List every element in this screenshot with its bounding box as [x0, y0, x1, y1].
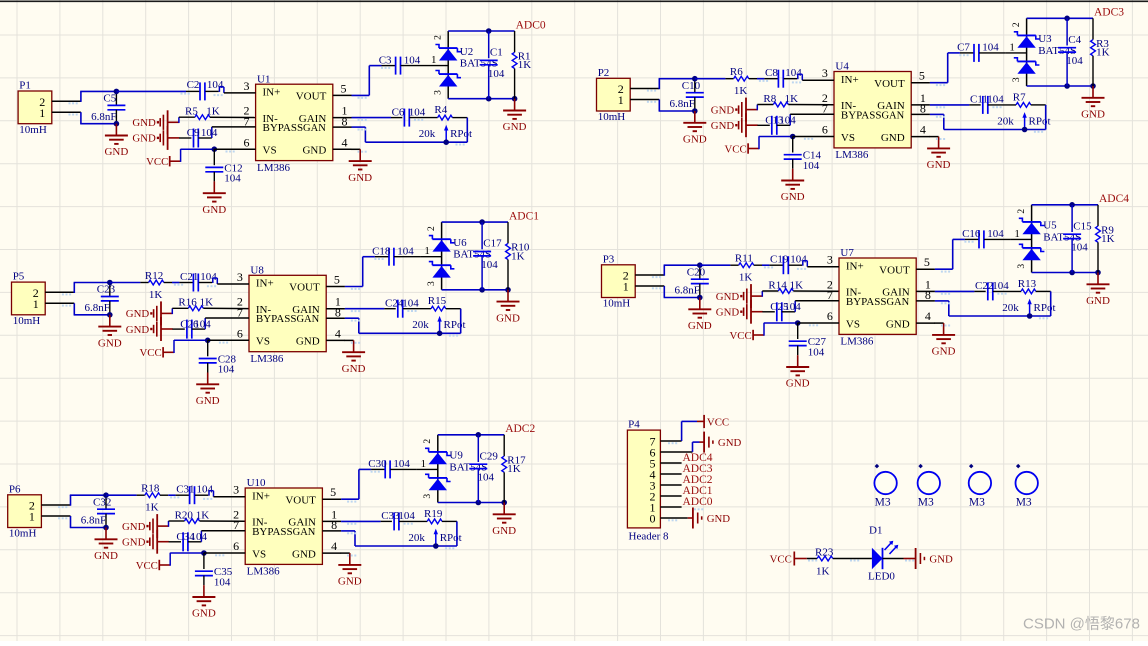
svg-text:GND: GND	[94, 550, 118, 562]
wire P5 pin 1 to ground node	[74, 303, 110, 315]
capacitor C17 104	[473, 222, 502, 290]
ground port at R14	[716, 284, 763, 308]
connector P5	[12, 271, 75, 327]
svg-text:5: 5	[334, 273, 340, 287]
svg-text:U4: U4	[835, 61, 849, 73]
svg-text:P1: P1	[19, 80, 31, 92]
diode U9 BAT54S	[423, 435, 487, 503]
svg-text:GAN: GAN	[293, 527, 316, 538]
svg-text:C17: C17	[483, 238, 502, 250]
svg-text:VS: VS	[263, 145, 277, 157]
connector P2	[597, 67, 660, 123]
svg-text:1: 1	[421, 458, 427, 470]
svg-text:4: 4	[335, 326, 341, 340]
svg-text:8: 8	[331, 518, 337, 532]
ground port at C13	[711, 113, 758, 137]
svg-text:10mH: 10mH	[603, 298, 631, 310]
svg-text:GND: GND	[1081, 109, 1105, 121]
capacitor C31 104	[176, 484, 214, 505]
svg-text:VCC: VCC	[707, 416, 729, 428]
svg-text:RPot: RPot	[450, 128, 472, 140]
capacitor C24 104	[384, 297, 431, 317]
svg-text:1K: 1K	[1101, 233, 1115, 245]
svg-text:GND: GND	[688, 320, 712, 332]
junction pot wiper	[1027, 313, 1033, 319]
resistor R14 1K	[762, 279, 839, 296]
svg-text:C24: C24	[385, 297, 404, 309]
svg-text:GND: GND	[126, 308, 150, 320]
ground port at R5	[132, 110, 179, 134]
ground at pin 4	[927, 137, 951, 172]
svg-text:GND: GND	[132, 117, 156, 129]
svg-text:R23: R23	[815, 546, 834, 558]
capacitor C32 6.8nF	[81, 495, 115, 527]
svg-text:104: 104	[779, 115, 796, 127]
svg-text:RPot: RPot	[1029, 115, 1051, 127]
svg-text:LM386: LM386	[257, 162, 291, 174]
svg-text:104: 104	[1066, 55, 1083, 67]
svg-text:1K: 1K	[145, 502, 159, 514]
wire to diode pin 1	[427, 54, 448, 66]
svg-text:7: 7	[827, 288, 833, 302]
svg-text:6: 6	[244, 135, 250, 149]
wire output bottom rail	[442, 289, 508, 291]
svg-text:1: 1	[39, 106, 45, 120]
power port VCC at P4	[697, 415, 729, 429]
power port VCC at LED	[770, 552, 807, 566]
svg-text:1K: 1K	[734, 85, 748, 97]
svg-text:IN+: IN+	[846, 260, 864, 272]
junction top rail	[1069, 202, 1075, 208]
capacitor C19 104	[769, 254, 807, 275]
svg-text:GND: GND	[932, 346, 956, 358]
wire pin 8 to pot	[935, 291, 1051, 316]
power port VCC	[724, 143, 759, 155]
wire jog to pin 3	[798, 74, 803, 80]
resistor R17 1K	[502, 435, 526, 503]
op-amp U7 LM386	[795, 247, 935, 348]
svg-text:1: 1	[424, 245, 430, 257]
junction bottom rail C	[1064, 83, 1070, 89]
capacitor C14 104	[784, 137, 822, 172]
svg-text:U5: U5	[1043, 220, 1057, 232]
svg-text:4: 4	[342, 135, 348, 149]
capacitor C18 104	[372, 245, 420, 265]
svg-text:104: 104	[393, 458, 410, 470]
svg-text:C16: C16	[962, 228, 981, 240]
svg-text:3: 3	[1017, 264, 1027, 269]
svg-text:104: 104	[397, 245, 414, 257]
capacitor C29 104	[469, 435, 498, 503]
svg-text:GND: GND	[929, 553, 953, 565]
ground at pin 4	[342, 340, 366, 375]
svg-text:C15: C15	[1073, 220, 1092, 232]
svg-text:VCC: VCC	[146, 156, 168, 168]
svg-text:4: 4	[331, 539, 337, 553]
junction VS node	[795, 320, 801, 326]
svg-text:VOUT: VOUT	[296, 91, 327, 103]
junction top rail	[486, 28, 492, 34]
svg-text:1: 1	[1014, 228, 1020, 240]
svg-text:C3: C3	[379, 54, 392, 66]
capacitor C21 104	[179, 271, 217, 292]
svg-text:BYPASS: BYPASS	[252, 526, 293, 538]
svg-text:C23: C23	[97, 284, 116, 296]
wire pin 8 to pot	[345, 309, 461, 334]
capacitor C23 6.8nF	[85, 283, 119, 315]
power port VCC	[139, 347, 174, 359]
svg-text:U6: U6	[453, 237, 467, 249]
svg-text:C6: C6	[392, 106, 405, 118]
svg-text:R8: R8	[763, 93, 776, 105]
ground below C28	[196, 373, 220, 408]
svg-text:P6: P6	[9, 483, 21, 495]
wire jog to pin 3	[803, 261, 808, 267]
svg-text:104: 104	[1071, 242, 1088, 254]
junction bottom rail C	[486, 96, 492, 102]
svg-text:LM386: LM386	[840, 336, 874, 348]
wire output top rail	[1032, 204, 1098, 206]
net label ADC4	[1099, 193, 1129, 205]
ground below output	[1081, 86, 1105, 121]
junction C20 bottom	[697, 295, 703, 301]
wire GAIN to cap	[345, 308, 385, 310]
svg-text:GND: GND	[716, 307, 740, 319]
mounting hole M3 #4	[1015, 464, 1037, 508]
capacitor C34 104	[169, 531, 208, 552]
ground below output	[1086, 273, 1110, 308]
ground at pin 4	[348, 149, 372, 184]
resistor R6 1K	[695, 66, 757, 97]
svg-text:3: 3	[433, 90, 443, 95]
svg-text:104: 104	[197, 484, 214, 496]
wire end markers	[652, 241, 1048, 327]
svg-text:CSDN @悟黎678: CSDN @悟黎678	[1023, 616, 1140, 633]
net label ADC2 at P4	[683, 474, 713, 486]
svg-text:GND: GND	[126, 324, 150, 336]
capacitor C10 6.8nF	[670, 79, 704, 111]
svg-text:GND: GND	[927, 159, 951, 171]
svg-text:R18: R18	[141, 483, 160, 495]
svg-text:GND: GND	[786, 378, 810, 390]
wire P4 pin 7 to VCC	[682, 421, 697, 441]
net label ADC0	[516, 19, 546, 31]
wire output bottom rail	[1032, 272, 1098, 274]
svg-text:6.8nF: 6.8nF	[81, 515, 106, 527]
svg-text:104: 104	[218, 364, 235, 376]
svg-text:U3: U3	[1038, 33, 1052, 45]
mounting hole M3 #1	[874, 464, 896, 508]
svg-text:1K: 1K	[507, 463, 521, 475]
junction bottom rail R	[1095, 270, 1101, 276]
net label ADC3 at P4	[683, 463, 713, 475]
wire P2 pin 2 to input node	[659, 79, 695, 90]
svg-text:104: 104	[478, 472, 495, 484]
wire jog to pin 3	[209, 491, 214, 497]
svg-text:1: 1	[618, 93, 624, 107]
wire P6 pin 1 to ground node	[70, 516, 106, 528]
wire VCC to VS	[181, 149, 215, 162]
junction pot wiper	[437, 331, 443, 337]
wire VCC to VS	[170, 553, 204, 566]
ground below C32	[94, 528, 118, 563]
resistor R12 1K	[110, 270, 172, 301]
svg-text:GND: GND	[781, 191, 805, 203]
ground below C5	[104, 124, 128, 159]
op-amp U4 LM386	[790, 61, 930, 162]
wire GAIN to cap	[341, 520, 381, 522]
svg-text:ADC1: ADC1	[509, 210, 539, 222]
wire input rail	[757, 78, 764, 80]
svg-text:C11: C11	[970, 94, 988, 106]
wire jog to pin 3	[213, 278, 218, 284]
svg-text:P2: P2	[598, 67, 610, 79]
svg-text:104: 104	[790, 254, 807, 266]
svg-text:GND: GND	[98, 337, 122, 349]
svg-text:VS: VS	[256, 336, 270, 348]
ground below C14	[781, 169, 805, 204]
wire end markers	[62, 258, 458, 344]
junction top rail	[1064, 15, 1070, 21]
svg-text:1K: 1K	[206, 106, 220, 118]
wire P2 pin 1 to ground node	[659, 100, 695, 112]
junction C23 bottom	[107, 312, 113, 318]
svg-text:GND: GND	[683, 134, 707, 146]
svg-text:VS: VS	[252, 548, 266, 560]
net label ADC4 at P4	[683, 452, 713, 464]
ground port at R20	[122, 514, 169, 538]
svg-text:C19: C19	[770, 254, 789, 266]
capacitor C12 104	[205, 149, 242, 184]
svg-text:IN+: IN+	[263, 87, 281, 99]
wire to diode pin 1	[1005, 41, 1026, 53]
svg-text:5: 5	[330, 485, 336, 499]
capacitor C35 104	[195, 553, 233, 588]
svg-text:6.8nF: 6.8nF	[91, 111, 116, 123]
svg-text:U2: U2	[460, 46, 473, 58]
capacitor C25 104	[762, 301, 801, 322]
svg-text:GND: GND	[202, 204, 226, 216]
net label ADC0 at P4	[683, 496, 713, 508]
junction VS node	[201, 550, 207, 556]
junction top rail	[479, 219, 485, 225]
svg-text:1: 1	[1009, 41, 1015, 53]
wire input rail	[762, 264, 769, 266]
svg-text:GND: GND	[711, 104, 735, 116]
svg-text:104: 104	[200, 271, 217, 283]
svg-text:3: 3	[237, 270, 243, 284]
svg-text:20k: 20k	[419, 128, 436, 140]
svg-text:VCC: VCC	[729, 330, 751, 342]
svg-text:M3: M3	[875, 496, 891, 508]
svg-text:BYPASS: BYPASS	[846, 296, 887, 308]
svg-text:LM386: LM386	[835, 149, 869, 161]
svg-text:GND: GND	[886, 318, 910, 330]
svg-text:R5: R5	[185, 106, 198, 118]
svg-text:7: 7	[244, 114, 250, 128]
capacitor C8 104	[764, 67, 802, 88]
svg-text:6.8nF: 6.8nF	[670, 98, 695, 110]
svg-text:1K: 1K	[790, 279, 804, 291]
svg-text:2: 2	[1012, 22, 1022, 27]
svg-text:GND: GND	[348, 172, 372, 184]
resistor R8 1K	[757, 93, 834, 110]
junction bottom rail R	[1090, 83, 1096, 89]
svg-text:104: 104	[409, 106, 426, 118]
potentiometer R19 20k	[408, 508, 461, 546]
potentiometer R15 20k	[412, 295, 465, 333]
svg-text:GND: GND	[132, 133, 156, 145]
wire GAIN to cap	[930, 104, 970, 106]
wire input rail	[168, 494, 175, 496]
ground port at R16	[126, 301, 173, 325]
svg-text:GND: GND	[881, 132, 905, 144]
svg-text:20k: 20k	[408, 532, 425, 544]
capacitor C15 104	[1063, 205, 1092, 273]
svg-text:GND: GND	[492, 525, 516, 537]
svg-text:8: 8	[335, 306, 341, 320]
junction VS node	[790, 134, 796, 140]
svg-text:R7: R7	[1013, 91, 1026, 103]
svg-text:2: 2	[1017, 209, 1027, 214]
svg-text:GND: GND	[718, 437, 742, 449]
ground below C12	[202, 181, 226, 216]
svg-text:LM386: LM386	[247, 566, 281, 578]
net label ADC1 at P4	[683, 485, 713, 497]
potentiometer R7 20k	[997, 91, 1050, 129]
svg-text:VS: VS	[846, 318, 860, 330]
ground port at C25	[716, 300, 763, 324]
svg-text:3: 3	[427, 281, 437, 286]
svg-text:7: 7	[233, 518, 239, 532]
markers at P4	[668, 442, 703, 521]
wire output top rail	[1027, 17, 1093, 19]
svg-text:4: 4	[920, 123, 926, 137]
capacitor C20 6.8nF	[675, 265, 709, 297]
op-amp U8 LM386	[205, 264, 345, 365]
svg-text:GAN: GAN	[881, 110, 904, 121]
svg-text:P3: P3	[603, 253, 615, 265]
svg-text:C22: C22	[975, 280, 993, 292]
wire output bottom rail	[448, 98, 514, 100]
svg-text:C33: C33	[381, 510, 400, 522]
svg-text:GND: GND	[711, 120, 735, 132]
svg-text:104: 104	[987, 94, 1004, 106]
svg-text:104: 104	[992, 280, 1009, 292]
svg-text:20k: 20k	[412, 319, 429, 331]
wire GAIN to cap	[352, 117, 392, 119]
svg-text:6: 6	[237, 326, 243, 340]
svg-text:2: 2	[427, 226, 437, 231]
svg-text:GAN: GAN	[296, 314, 319, 325]
svg-text:R13: R13	[1018, 278, 1037, 290]
ground port at P4 pin 6	[700, 432, 742, 453]
svg-text:GND: GND	[503, 121, 527, 133]
svg-text:P4: P4	[628, 419, 640, 431]
junction top rail	[476, 432, 482, 438]
junction C32 bottom	[103, 525, 109, 531]
svg-text:104: 104	[201, 127, 218, 139]
svg-text:10mH: 10mH	[9, 528, 37, 540]
wire pin 8 to pot	[352, 118, 468, 143]
svg-text:4: 4	[925, 309, 931, 323]
LED D1 LED0	[868, 525, 898, 583]
junction VS node	[212, 146, 218, 152]
junction C5 top	[114, 89, 120, 95]
ground port at P4 pin 0	[688, 508, 731, 529]
net label ADC1	[509, 210, 539, 222]
svg-text:VOUT: VOUT	[285, 494, 316, 506]
svg-text:8: 8	[925, 288, 931, 302]
svg-text:LED0: LED0	[868, 570, 895, 582]
diode U6 BAT54S	[427, 222, 491, 290]
junction bottom rail R	[512, 96, 518, 102]
svg-text:GND: GND	[342, 363, 366, 375]
capacitor C13 104	[757, 114, 796, 135]
svg-text:1: 1	[431, 54, 437, 66]
wire output top rail	[448, 30, 514, 32]
svg-text:6.8nF: 6.8nF	[85, 302, 110, 314]
svg-text:R6: R6	[730, 66, 743, 78]
ground below output	[496, 290, 520, 325]
connector P6	[8, 483, 71, 539]
svg-text:1K: 1K	[149, 289, 163, 301]
svg-text:5: 5	[341, 81, 347, 95]
wire P6 pin 2 to input node	[70, 495, 106, 506]
svg-text:1K: 1K	[518, 59, 532, 71]
svg-text:VOUT: VOUT	[879, 264, 910, 276]
svg-text:R12: R12	[145, 270, 163, 282]
svg-text:104: 104	[194, 318, 211, 330]
svg-text:R15: R15	[428, 295, 447, 307]
svg-text:IN+: IN+	[252, 490, 270, 502]
svg-text:GAN: GAN	[886, 297, 909, 308]
svg-text:3: 3	[827, 253, 833, 267]
svg-text:2: 2	[433, 35, 443, 40]
wire VOUT to coupling cap	[930, 53, 960, 83]
wire end markers	[69, 67, 465, 153]
wire VCC to VS	[174, 340, 208, 353]
svg-text:104: 104	[784, 301, 801, 313]
diode U2 BAT54S	[433, 31, 497, 99]
svg-text:R16: R16	[178, 297, 197, 309]
svg-text:6: 6	[827, 309, 833, 323]
capacitor C4 104	[1058, 18, 1083, 86]
svg-text:1K: 1K	[200, 297, 214, 309]
wire GAIN to cap	[935, 290, 975, 292]
svg-text:104: 104	[803, 160, 820, 172]
svg-text:10mH: 10mH	[13, 315, 41, 327]
svg-text:R19: R19	[424, 508, 443, 520]
svg-text:104: 104	[402, 297, 419, 309]
svg-text:VS: VS	[841, 132, 855, 144]
svg-text:C2: C2	[187, 79, 200, 91]
svg-text:7: 7	[237, 306, 243, 320]
svg-text:RPot: RPot	[444, 319, 466, 331]
junction C23 top	[107, 280, 113, 286]
svg-text:3: 3	[244, 79, 250, 93]
svg-text:VCC: VCC	[136, 560, 158, 572]
wire P4 pin 6 to GND	[693, 442, 700, 452]
svg-text:R11: R11	[735, 253, 753, 265]
junction C20 top	[697, 262, 703, 268]
capacitor C9 104	[179, 127, 218, 148]
resistor R16 1K	[172, 297, 249, 314]
svg-text:C20: C20	[687, 266, 706, 278]
wire VCC to VS	[764, 323, 798, 336]
svg-text:C5: C5	[103, 93, 116, 105]
net label ADC2	[505, 423, 535, 435]
